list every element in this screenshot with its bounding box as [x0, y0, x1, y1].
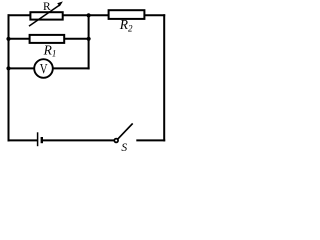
wire: top horizontal through rheostat and R2 — [9, 14, 165, 16]
wire: bottom right segment after switch — [137, 139, 164, 141]
resistor R2 box — [109, 10, 145, 19]
battery cell: short thick plate — [41, 137, 43, 143]
rheostat R box — [30, 12, 62, 19]
wire: middle vertical from node A down to voltmeter branch — [88, 15, 90, 68]
junction dot: left wire / voltmeter branch — [6, 66, 10, 70]
junction dot: node A on top wire — [87, 13, 91, 17]
wire: right vertical — [163, 15, 165, 140]
switch S blade — [118, 123, 133, 138]
wire: bottom left segment to battery — [9, 139, 38, 141]
svg-text:V: V — [40, 60, 48, 77]
voltmeter V circle — [34, 59, 53, 78]
junction dot: left wire / R1 branch — [6, 37, 10, 41]
wire: left vertical — [8, 15, 10, 140]
wire: voltmeter branch horizontal — [9, 67, 89, 69]
switch S contact circle — [114, 139, 118, 143]
resistor R1 box — [30, 35, 65, 43]
battery cell: long plate — [37, 132, 39, 146]
wire: bottom segment battery to switch — [43, 139, 114, 141]
svg-text:S: S — [121, 142, 127, 154]
wire: R1 branch horizontal — [9, 38, 89, 40]
svg-text:R: R — [43, 1, 51, 13]
junction dot: middle vertical / R1 branch — [87, 37, 91, 41]
rheostat R arrow — [29, 1, 63, 26]
